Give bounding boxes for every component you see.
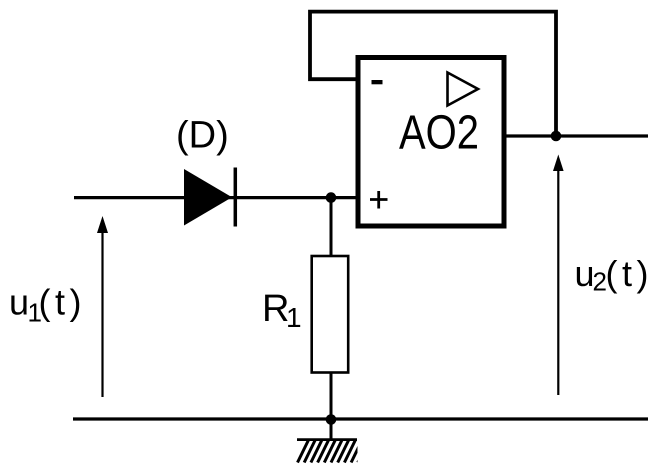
svg-text:(D): (D) [176, 115, 229, 157]
svg-text:(t): (t) [606, 253, 649, 294]
svg-text:(t): (t) [39, 282, 82, 323]
svg-text:u: u [9, 282, 29, 323]
svg-text:AO2: AO2 [399, 107, 479, 160]
svg-text:1: 1 [286, 302, 302, 333]
